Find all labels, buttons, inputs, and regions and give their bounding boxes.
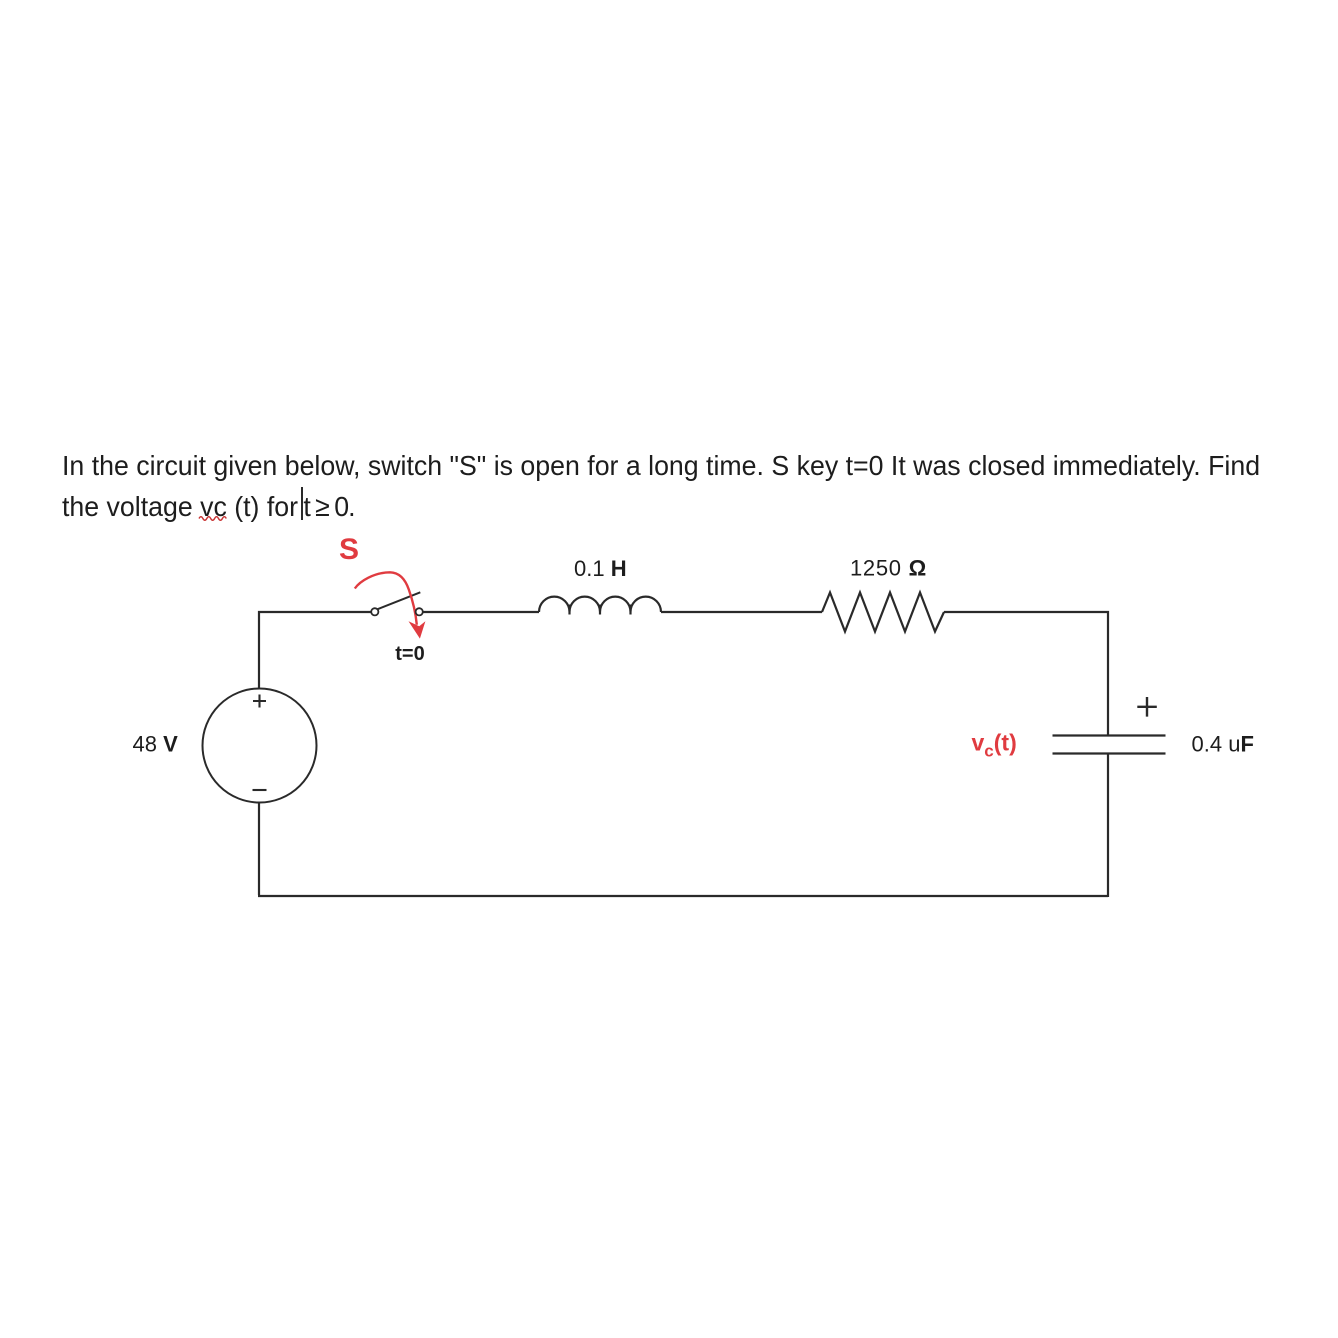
svg-text:vc(t): vc(t) [972, 730, 1017, 761]
wire right-top segment [944, 612, 1108, 736]
wire top-left segment [259, 612, 371, 689]
voltage source V1 circle [203, 689, 317, 803]
svg-text:48 V: 48 V [133, 732, 179, 757]
svg-text:S: S [339, 533, 359, 566]
switch S left pole [371, 608, 378, 615]
wire switch-to-inductor segment [423, 611, 539, 613]
svg-text:1250 Ω: 1250 Ω [850, 556, 927, 581]
problem statement paragraph [62, 445, 1260, 527]
resistor R1 zigzag [822, 593, 944, 632]
capacitor plus polarity mark [1137, 697, 1157, 717]
voltage source minus terminal mark [253, 789, 267, 791]
capacitor C1 plates [1053, 736, 1166, 754]
switch closing arrow red [355, 572, 417, 625]
text caret cursor [301, 487, 303, 520]
wire right-bottom segment [1107, 754, 1109, 898]
wire inductor-to-resistor segment [661, 611, 822, 613]
red spell-check squiggle under vc [198, 514, 229, 522]
wire bottom-left segment [258, 803, 260, 896]
inductor L1 [539, 597, 661, 615]
wire bottom segment [258, 895, 1108, 897]
switch S blade [376, 592, 420, 609]
svg-text:0.4 uF: 0.4 uF [1192, 732, 1254, 757]
svg-text:t=0: t=0 [395, 643, 424, 665]
switch S right pole [416, 608, 423, 615]
voltage source plus terminal mark [253, 695, 266, 708]
svg-text:0.1 H: 0.1 H [574, 556, 627, 581]
